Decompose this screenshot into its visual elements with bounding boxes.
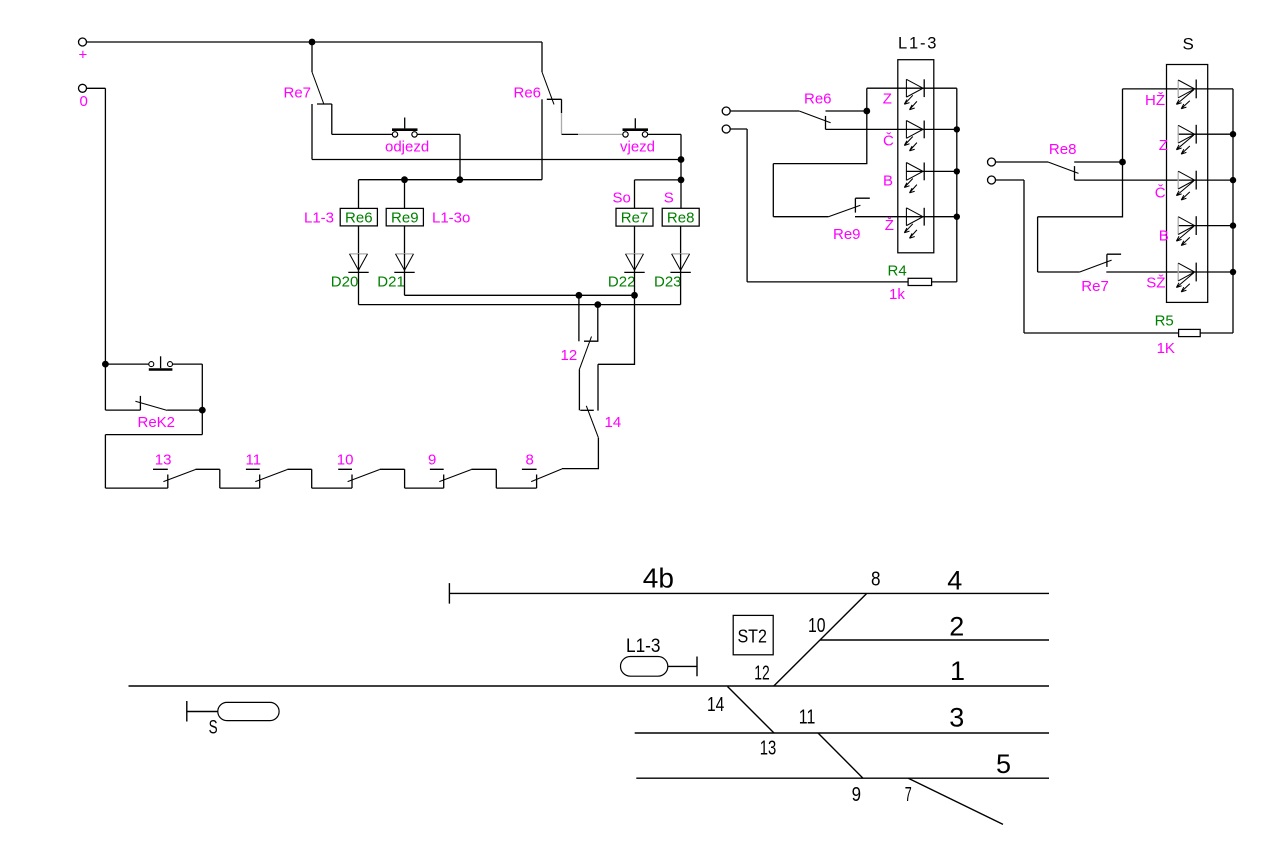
label S panel title <box>1183 34 1194 53</box>
svg-text:Ž: Ž <box>885 217 894 234</box>
turnout diagonal 14-13 <box>728 687 775 734</box>
svg-text:11: 11 <box>799 707 816 729</box>
svg-text:13: 13 <box>155 451 172 468</box>
pushbutton NC (ReK2 bypass) <box>105 356 202 369</box>
node rbus SZ <box>1230 269 1236 275</box>
label B right <box>1159 228 1169 245</box>
label point 12 <box>754 663 770 685</box>
pushbutton odjezd <box>385 118 429 156</box>
svg-text:13: 13 <box>760 738 777 760</box>
diode D20 <box>331 254 369 291</box>
LED HZ (S) <box>1176 80 1196 109</box>
label point 11 <box>799 707 816 729</box>
contact Re7 (changeover, top) <box>284 42 393 160</box>
box ST2 <box>733 615 773 654</box>
svg-text:L1-3: L1-3 <box>626 636 661 657</box>
wire common NC rail <box>312 159 681 161</box>
contact Re9 (panel) <box>828 198 956 243</box>
svg-text:D22: D22 <box>608 274 636 291</box>
svg-text:L1-3: L1-3 <box>898 34 938 52</box>
lamp box S <box>1167 65 1208 303</box>
svg-text:Re8: Re8 <box>667 210 695 227</box>
wire ReK2 right <box>201 364 203 435</box>
wire to Re9 <box>773 111 867 217</box>
svg-text:Re9: Re9 <box>391 210 419 227</box>
label track 3 <box>949 702 964 732</box>
svg-text:1: 1 <box>950 656 965 686</box>
label Z <box>883 91 892 108</box>
svg-text:11: 11 <box>246 451 262 468</box>
pushbutton vjezd <box>620 118 655 155</box>
svg-text:4b: 4b <box>643 563 674 594</box>
wire line B <box>359 304 681 306</box>
node right coil rail <box>678 177 685 184</box>
svg-text:Re7: Re7 <box>621 210 649 227</box>
node vjezd-NC join <box>678 156 685 163</box>
contact ReK2 <box>105 396 202 431</box>
svg-text:B: B <box>1159 228 1169 245</box>
relay coil Re8 <box>662 208 699 226</box>
signal L1-3 symbol <box>621 636 698 676</box>
svg-text:3: 3 <box>949 702 964 732</box>
wire R4 to terminal <box>730 129 908 282</box>
svg-text:ReK2: ReK2 <box>138 414 176 431</box>
node right HZ <box>1119 159 1126 166</box>
wire 12-14 link <box>578 369 580 410</box>
label track 1 <box>950 656 965 686</box>
LED C (S) <box>1176 171 1196 200</box>
track 2 <box>820 639 1049 641</box>
relay coil Re7 <box>616 208 653 226</box>
label track 4 <box>947 565 962 595</box>
node mid Z <box>863 108 870 115</box>
node rbus Z <box>1230 131 1236 137</box>
node A1 <box>576 292 583 299</box>
wire D21 down <box>404 272 406 295</box>
wire to Re7 (panel) <box>1038 162 1123 272</box>
svg-text:2: 2 <box>949 612 964 642</box>
svg-text:12: 12 <box>561 347 578 364</box>
wire line A <box>405 294 635 296</box>
turnout diagonal 12-10-8 <box>774 593 867 686</box>
svg-text:B: B <box>883 173 893 190</box>
wire odjezd out <box>417 134 460 179</box>
LED Z (L1-3) <box>904 79 924 109</box>
node A2 <box>631 292 638 299</box>
svg-text:Re8: Re8 <box>1049 141 1077 158</box>
terminal mid-2 <box>722 125 730 133</box>
wire 14 down <box>562 438 598 469</box>
svg-text:5: 5 <box>996 749 1011 779</box>
resistor R5 <box>1155 312 1233 357</box>
svg-text:+: + <box>79 47 88 64</box>
node rbus B <box>1230 222 1236 228</box>
wire D22 down <box>634 272 636 295</box>
wire Z row right <box>1178 133 1233 135</box>
svg-text:1K: 1K <box>1157 340 1175 357</box>
LED Zc (L1-3) <box>904 208 924 238</box>
svg-text:HŽ: HŽ <box>1145 92 1165 109</box>
label Z caron <box>885 217 894 234</box>
svg-text:So: So <box>613 189 631 206</box>
contact Re8 (panel) <box>996 141 1123 180</box>
LED B (S) <box>1176 216 1196 245</box>
label point 9 <box>852 784 861 806</box>
node ReK2 top <box>102 361 109 368</box>
svg-text:vjezd: vjezd <box>620 139 655 156</box>
node odjezd join <box>456 176 463 183</box>
wire Re7-D22 <box>634 226 636 254</box>
diode D23 <box>654 254 691 291</box>
svg-text:Re9: Re9 <box>833 226 861 243</box>
contact 11 <box>246 451 312 488</box>
wire Re9 coil stub <box>404 180 406 209</box>
LED B (L1-3) <box>904 163 924 193</box>
wire 9-8 <box>496 487 536 489</box>
wire HZ row <box>1123 89 1234 162</box>
svg-text:9: 9 <box>428 451 436 468</box>
svg-text:Č: Č <box>1155 184 1166 201</box>
contact 12 <box>561 295 599 369</box>
turnout diagonal 7 <box>908 778 1003 824</box>
svg-text:S: S <box>1183 34 1194 53</box>
svg-text:Re6: Re6 <box>804 91 832 108</box>
node bus Zc <box>954 214 960 220</box>
terminal 0 <box>79 84 88 110</box>
wire R5 to terminal <box>996 180 1179 333</box>
wire Z row <box>867 88 957 111</box>
wire D20 down <box>358 272 360 304</box>
wire 10-9 <box>405 487 444 489</box>
node B1 <box>594 301 601 308</box>
label C caron <box>883 132 894 149</box>
svg-text:8: 8 <box>871 569 881 591</box>
svg-text:0: 0 <box>80 93 88 110</box>
terminal + <box>79 38 88 64</box>
LED Z (S) <box>1176 125 1196 154</box>
contact Re6 (changeover, top) <box>514 42 623 180</box>
wire Re6 coil stub <box>358 180 360 209</box>
label L1-3 panel title <box>898 34 938 52</box>
contact 10 <box>337 451 405 488</box>
wire C row right <box>1075 179 1234 181</box>
svg-text:D20: D20 <box>331 274 359 291</box>
svg-text:SŽ: SŽ <box>1146 275 1165 292</box>
wire B row right <box>1178 225 1233 227</box>
label point 13 <box>760 738 777 760</box>
label point 7 <box>905 784 912 806</box>
svg-text:odjezd: odjezd <box>385 138 429 155</box>
wire 11-10 <box>312 487 352 489</box>
svg-text:1k: 1k <box>889 286 905 303</box>
signal S symbol <box>187 701 279 739</box>
svg-text:10: 10 <box>337 451 354 468</box>
svg-text:12: 12 <box>754 663 770 685</box>
svg-text:14: 14 <box>707 694 724 716</box>
svg-text:D23: D23 <box>654 274 682 291</box>
wire coil rail left <box>359 179 543 181</box>
svg-text:S: S <box>664 189 674 206</box>
contact Re6 (panel) <box>730 91 866 130</box>
wire 13-11 <box>220 487 260 489</box>
node bus C <box>954 126 960 132</box>
label Z right <box>1159 137 1168 154</box>
relay coil Re6 <box>340 208 377 226</box>
relay coil Re9 <box>386 208 423 226</box>
lamp box L1-3 <box>898 60 934 253</box>
svg-text:7: 7 <box>905 784 912 806</box>
node rbus C <box>1230 177 1236 183</box>
svg-text:4: 4 <box>947 565 962 595</box>
contact 14 <box>580 406 621 438</box>
svg-text:Z: Z <box>1159 137 1168 154</box>
node bus B <box>954 168 960 174</box>
label S <box>664 189 674 206</box>
wire vjezd out <box>648 134 681 208</box>
diode D21 <box>377 254 414 291</box>
wire right bus <box>1232 89 1234 333</box>
svg-text:L1-3: L1-3 <box>304 209 334 226</box>
label L1-3 <box>304 209 334 226</box>
contact 9 <box>428 451 496 488</box>
node ReK2 out <box>199 407 206 414</box>
label point 10 <box>808 615 826 637</box>
svg-text:R5: R5 <box>1155 312 1174 329</box>
wire B row <box>907 170 957 172</box>
terminal right-2 <box>988 176 996 184</box>
track 5 <box>636 777 1049 779</box>
svg-text:L1-3o: L1-3o <box>432 209 470 226</box>
wire Re9-D21 <box>404 226 406 254</box>
label C caron right <box>1155 184 1166 201</box>
LED SZ (S) <box>1176 263 1196 292</box>
svg-text:Re7: Re7 <box>1081 278 1109 295</box>
label 4b <box>643 563 674 594</box>
wire C row <box>826 128 957 130</box>
turnout diagonal 11-9 <box>818 733 863 778</box>
node junction at Re7 drop <box>309 39 316 46</box>
svg-text:Z: Z <box>883 91 892 108</box>
svg-text:ST2: ST2 <box>737 626 767 647</box>
label B <box>883 173 893 190</box>
svg-text:S: S <box>209 718 218 739</box>
svg-text:9: 9 <box>852 784 861 806</box>
wire mid right bus <box>956 88 958 282</box>
contact Re7 (panel) <box>1080 254 1233 295</box>
wire coil rail right <box>635 180 682 208</box>
track 1 main <box>129 685 1050 687</box>
wire Re6-D20 <box>358 226 360 254</box>
svg-text:14: 14 <box>605 414 622 431</box>
contact 13 <box>153 451 220 488</box>
svg-text:R4: R4 <box>888 262 907 279</box>
terminal right-1 <box>988 158 996 166</box>
label point 8 <box>871 569 881 591</box>
svg-text:10: 10 <box>808 615 826 637</box>
wire 0 drop <box>87 88 106 410</box>
svg-text:Č: Č <box>883 132 894 149</box>
label SZ caron <box>1146 275 1165 292</box>
svg-text:Re6: Re6 <box>345 210 373 227</box>
wire D22 to 14 <box>598 295 635 410</box>
label track 2 <box>949 612 964 642</box>
LED C (L1-3) <box>904 121 924 151</box>
wire Re8-D23 <box>680 226 682 254</box>
label So <box>613 189 631 206</box>
label L1-3o <box>432 209 470 226</box>
wire to bottom row <box>105 435 202 489</box>
terminal mid-1 <box>722 107 730 115</box>
label track 5 <box>996 749 1011 779</box>
svg-text:Re6: Re6 <box>514 85 542 102</box>
label point 14 <box>707 694 724 716</box>
resistor R4 <box>888 262 957 303</box>
diode D22 <box>608 254 645 291</box>
track 3 <box>635 732 1049 734</box>
wire +bus top <box>87 41 543 43</box>
node Re9 branch <box>401 176 408 183</box>
svg-text:8: 8 <box>526 451 534 468</box>
label HZ caron <box>1145 92 1165 109</box>
svg-text:Re7: Re7 <box>284 85 312 102</box>
contact 8 <box>522 451 562 488</box>
svg-text:D21: D21 <box>377 274 405 291</box>
wire D23 down <box>680 272 682 304</box>
track 4b/4 <box>449 583 1049 604</box>
